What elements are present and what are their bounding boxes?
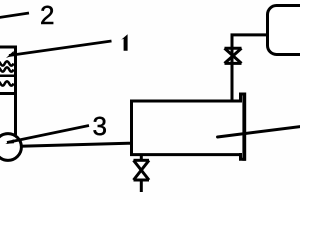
wire: pipe from pump to vessel xyxy=(20,143,131,146)
leader line to label 1 (with arrow into device) xyxy=(9,41,112,56)
wire: stem below bottom valve xyxy=(140,180,143,192)
svg-text:2: 2 xyxy=(40,0,54,30)
pump 3 (circle, cut off at left edge) xyxy=(0,134,21,161)
vessel right flange xyxy=(241,94,245,159)
leader line to label 2 (runs off left edge) xyxy=(0,13,29,18)
wire: pipe from vessel top up to valve xyxy=(231,49,234,102)
filter/heater device 1 (left, cut off at edge) xyxy=(0,47,16,94)
valve (top, between tank and vessel) xyxy=(225,48,242,63)
valve (bottom drain of vessel) xyxy=(140,156,143,160)
leader line entering vessel from right (label cut off) xyxy=(218,127,302,138)
wire: pipe from device 1 down to pump xyxy=(14,93,17,135)
label 1 xyxy=(121,34,127,50)
svg-text:3: 3 xyxy=(93,111,107,141)
device 1 internal wavy packing lines xyxy=(0,61,14,85)
wire: pipe from valve up and right to tank xyxy=(232,35,268,49)
vessel / reaction kettle body xyxy=(130,100,241,157)
tank (top right, rounded, cut off at right edge) xyxy=(268,6,313,55)
leader line to label 3 (from pump) xyxy=(7,126,89,143)
